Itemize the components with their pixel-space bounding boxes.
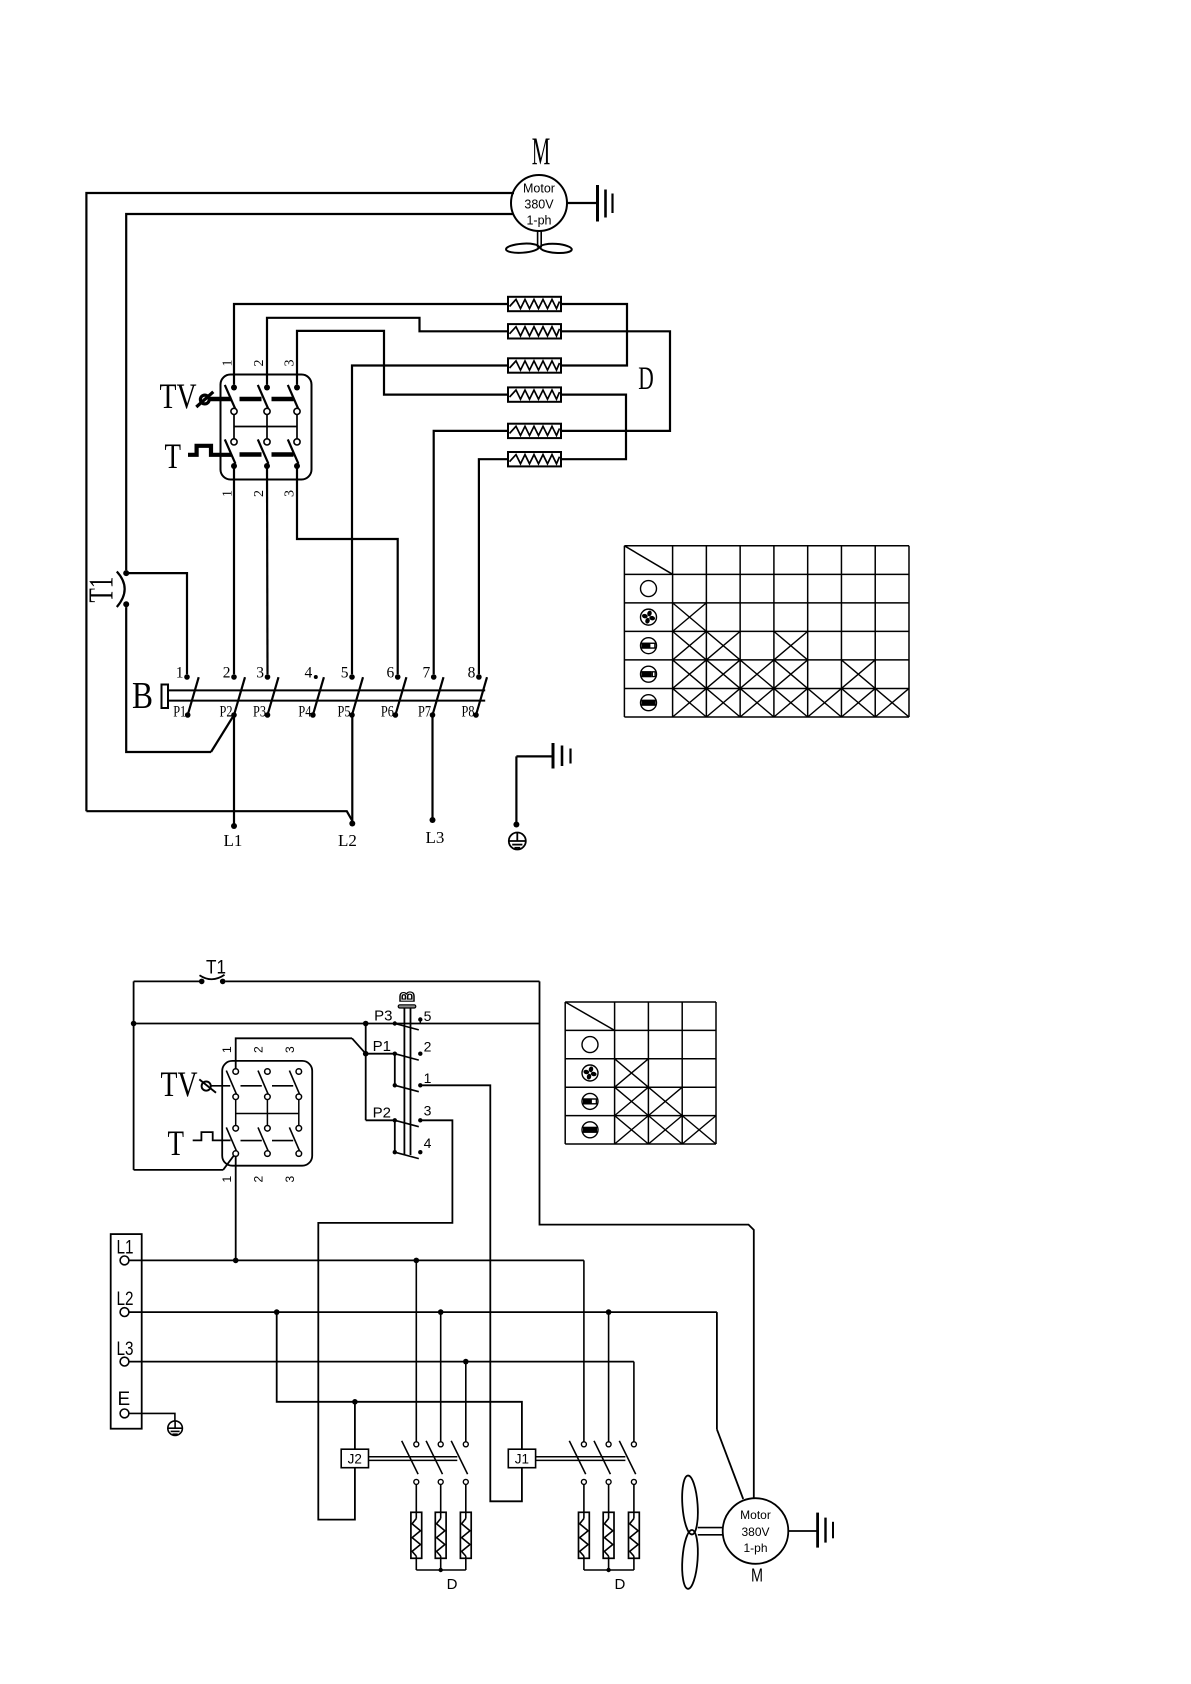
svg-text:J1: J1: [515, 1451, 529, 1466]
table X marks (bottom): [615, 1059, 716, 1144]
wire: L2 to J2 contact: [440, 1312, 442, 1441]
table symbols: off / fan / low / mid / high: [641, 581, 657, 711]
node: left rail / P3: [131, 1021, 137, 1027]
pin labels 1 2 3 (top of block): [221, 360, 298, 367]
wire: P5 to L2 terminal: [351, 715, 353, 821]
rotary B levers and contacts: [393, 1017, 423, 1158]
wire: P2 to L1 terminal: [233, 715, 235, 824]
node: TV pin1 / L1: [233, 1258, 239, 1264]
wire: T pin1 to L1: [235, 1156, 237, 1260]
ground (motor bottom): [788, 1513, 833, 1548]
svg-text:P8: P8: [462, 704, 475, 721]
svg-text:3: 3: [424, 1103, 432, 1119]
selector B levers and terminals: [184, 674, 487, 718]
function table (top): [624, 546, 909, 717]
fan blades (motor M): [506, 231, 572, 254]
wire: P1/P2 left bus: [366, 1024, 395, 1153]
T label + pulse symbol (bottom): [168, 1123, 231, 1163]
svg-text:4: 4: [305, 665, 313, 682]
node: J2 L3 tap: [463, 1359, 469, 1365]
wire: B pin8 to R6: [479, 459, 508, 674]
svg-text:P1: P1: [173, 704, 186, 721]
svg-text:2: 2: [252, 1046, 266, 1053]
wire: left heater leads: [416, 1484, 466, 1518]
contacts T row: [225, 439, 300, 469]
rotary B terminal labels: [373, 1008, 393, 1122]
terminal E: [118, 1389, 131, 1418]
node L2: [338, 821, 357, 851]
pin labels 1 2 3 (bottom block top): [220, 1046, 297, 1053]
resistor R3: [508, 358, 561, 372]
fan blades (motor bottom): [680, 1475, 722, 1589]
svg-text:B: B: [397, 991, 419, 1002]
wire: L1 to J1 contact: [583, 1260, 585, 1441]
table X marks: [673, 603, 909, 717]
svg-text:T: T: [168, 1123, 185, 1163]
svg-text:1: 1: [220, 1046, 234, 1053]
wire: right heater leads: [584, 1484, 634, 1518]
wire: T pin1 to selector B pin 2: [233, 466, 235, 674]
svg-text:L3: L3: [426, 828, 445, 847]
wire: L2 to J1 contact: [608, 1312, 610, 1441]
node: J2 L2 tap: [438, 1309, 444, 1315]
wire: T1 to selector B pin 1: [126, 573, 187, 674]
wire: L1 to J2 contact: [415, 1260, 417, 1441]
resistor R6: [508, 452, 561, 466]
svg-text:2: 2: [252, 490, 267, 497]
wire: P3 line: [134, 1023, 540, 1025]
supply terminal block L1 L2 L3 E: [111, 1234, 142, 1429]
node: J2 coil tap: [352, 1399, 358, 1405]
motor M: [511, 175, 567, 231]
resistor Dr3: [629, 1512, 640, 1558]
wire: TV pin3 to R4: [297, 331, 508, 395]
wire: E to earth: [129, 1413, 175, 1421]
svg-text:Motor: Motor: [523, 182, 555, 196]
wire: T1 line (bottom): [134, 981, 540, 1170]
selector switch B: [162, 685, 486, 709]
svg-text:3: 3: [283, 490, 298, 497]
svg-text:J2: J2: [348, 1451, 362, 1466]
selector B terminal labels P1-P8: [173, 704, 475, 721]
wire: R2-R5 series tie: [561, 331, 670, 431]
resistor R5: [508, 424, 561, 438]
selector B pin numbers 1-8: [176, 665, 476, 682]
TV label + lamp symbol (bottom): [161, 1064, 217, 1104]
table symbols (bottom): [582, 1037, 598, 1138]
wire: L3 to J1 contact: [633, 1362, 635, 1442]
resistor R4: [508, 387, 561, 401]
motor M (bottom): [723, 1498, 789, 1564]
svg-text:D: D: [447, 1576, 458, 1593]
contactor J1: [508, 1449, 625, 1468]
wire: left heater common bus: [416, 1556, 466, 1572]
node P1: [363, 1051, 369, 1057]
resistor Dr2: [603, 1512, 614, 1558]
rotary B contact number labels: [424, 1008, 432, 1151]
node: J1 L2 tap: [606, 1309, 612, 1315]
svg-text:P3: P3: [374, 1008, 392, 1025]
svg-text:5: 5: [341, 665, 349, 682]
svg-text:P2: P2: [220, 704, 233, 721]
svg-text:380V: 380V: [741, 1525, 769, 1539]
terminal L1: [117, 1238, 134, 1265]
gang bar TV row: [210, 397, 294, 402]
svg-text:1: 1: [176, 665, 184, 682]
contacts TV row: [225, 385, 300, 415]
svg-text:3: 3: [283, 1046, 297, 1053]
svg-text:P7: P7: [418, 704, 431, 721]
svg-text:3: 3: [256, 665, 264, 682]
TV label + lamp symbol: [160, 376, 214, 416]
internal link wires: [234, 415, 297, 439]
svg-text:380V: 380V: [524, 198, 554, 212]
svg-text:2: 2: [252, 1176, 266, 1183]
contactor J1 contacts: [569, 1441, 636, 1485]
svg-text:2: 2: [252, 360, 267, 367]
svg-text:1: 1: [220, 1176, 234, 1183]
wire: T pin3 to selector B pin 6: [297, 466, 398, 674]
svg-text:1: 1: [424, 1070, 432, 1086]
wire: R1-R3 series tie: [561, 304, 627, 366]
function table (bottom): [565, 1002, 716, 1144]
svg-text:L1: L1: [224, 831, 243, 850]
wire: left rail to T pin1: [134, 1156, 234, 1170]
svg-text:7: 7: [422, 665, 430, 682]
wire: right rail to motor: [540, 981, 754, 1498]
wire: right heater common bus: [584, 1556, 634, 1572]
svg-text:P1: P1: [373, 1038, 391, 1055]
wire: L2 line: [129, 1311, 717, 1313]
pin labels 1 2 3 (bottom block bottom): [220, 1176, 297, 1183]
svg-text:T: T: [165, 436, 182, 476]
svg-text:4: 4: [424, 1135, 432, 1151]
contactor J2: [341, 1449, 457, 1468]
svg-text:1-ph: 1-ph: [743, 1541, 767, 1555]
terminal L3: [117, 1339, 134, 1366]
svg-text:6: 6: [386, 665, 394, 682]
internal links (bottom block): [211, 1086, 299, 1141]
T label + pulse symbol: [165, 436, 232, 476]
svg-text:TV: TV: [160, 376, 197, 416]
wire: T pin2 to selector B pin 3: [266, 466, 269, 674]
svg-text:B: B: [132, 675, 153, 717]
wire: P7 to L3 terminal: [431, 715, 433, 818]
rotary switch B (bottom): [397, 991, 419, 1155]
wire: TV pin2 to R2: [267, 318, 508, 385]
wire: TV pin1 to R1: [234, 304, 508, 385]
wire: earth lead: [515, 756, 517, 822]
node: J2 L1 tap: [414, 1258, 420, 1264]
switch T1 (bottom): [199, 958, 226, 985]
svg-text:TV: TV: [161, 1064, 198, 1104]
svg-text:P5: P5: [338, 704, 351, 721]
wire: L3 line: [129, 1361, 634, 1363]
wire: L3 to J2 contact: [465, 1362, 467, 1442]
wire: contact 3 to J2 coil: [318, 1120, 452, 1519]
svg-text:P6: P6: [381, 704, 394, 721]
wire: B pin5 to R3: [352, 366, 508, 675]
svg-text:M: M: [751, 1565, 763, 1586]
wire: J2 coil top lead: [354, 1402, 356, 1449]
wire: L1 line: [129, 1259, 584, 1261]
svg-text:2: 2: [223, 665, 231, 682]
wire: L2 to motor: [717, 1312, 743, 1499]
wire: coil supply line: [277, 1312, 522, 1449]
wire: motor feed upper to left rail: [86, 193, 514, 811]
resistor Dl3: [460, 1512, 471, 1558]
svg-text:3: 3: [283, 1176, 297, 1183]
wire: left rail to L2: [86, 811, 352, 821]
svg-text:1-ph: 1-ph: [526, 214, 551, 228]
resistor Dr1: [579, 1512, 590, 1558]
protective earth symbol: [509, 822, 526, 850]
wire: motor feed lower to T1: [126, 214, 513, 570]
node L1: [224, 823, 243, 850]
svg-text:L2: L2: [338, 831, 357, 850]
svg-text:P4: P4: [298, 704, 311, 721]
contactor J2 contacts: [402, 1441, 469, 1485]
pin labels 1 2 3 (bottom of block): [221, 490, 298, 497]
svg-text:D: D: [638, 361, 654, 397]
wire: T1 to P2: [126, 607, 234, 752]
resistor R2: [508, 324, 561, 338]
chassis ground (supply): [516, 743, 570, 769]
svg-text:M: M: [532, 130, 551, 173]
svg-text:T1: T1: [82, 577, 121, 603]
switch block TV/T (oven selector contacts): [221, 375, 312, 480]
ground (motor M): [567, 185, 613, 222]
wire: TV pin1 top to P1 node: [236, 1038, 366, 1068]
svg-text:2: 2: [424, 1039, 432, 1055]
svg-text:E: E: [118, 1389, 131, 1410]
node: P3 junction: [363, 1021, 369, 1027]
node: J2 coil L2 tap: [274, 1309, 280, 1315]
wire: R4-R6 series tie: [561, 395, 626, 460]
wire: B pin7 to R5: [434, 431, 508, 674]
svg-text:Motor: Motor: [740, 1508, 771, 1522]
node L3: [426, 817, 445, 847]
contacts TV row (bottom): [226, 1069, 301, 1100]
protective earth symbol (bottom): [168, 1421, 183, 1436]
resistor Dl1: [411, 1512, 422, 1558]
switch T1: [82, 570, 130, 607]
svg-text:P3: P3: [253, 704, 266, 721]
resistor R1: [508, 297, 561, 311]
svg-text:8: 8: [468, 665, 476, 682]
gang bar T row: [240, 452, 294, 457]
resistor Dl2: [435, 1512, 446, 1558]
svg-text:P2: P2: [373, 1105, 391, 1122]
svg-text:3: 3: [283, 360, 298, 367]
switch block TV/T (bottom): [222, 1061, 312, 1166]
svg-text:5: 5: [424, 1008, 432, 1024]
terminal L2: [117, 1289, 134, 1316]
svg-text:D: D: [614, 1576, 625, 1593]
contacts T row (bottom): [226, 1126, 301, 1157]
wire: contact 1 to J1 coil: [420, 1085, 522, 1501]
